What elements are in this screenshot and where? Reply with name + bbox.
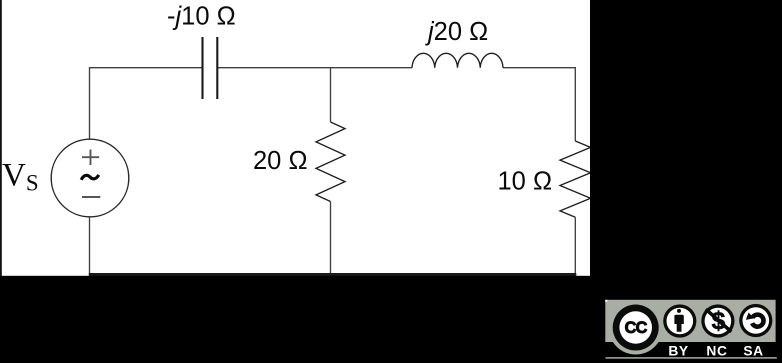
SA icon circle [739,304,772,337]
black region below panel [0,276,782,363]
inductor L (j20) [412,53,503,67]
svg-text:SA: SA [743,343,763,358]
svg-text:j20 Ω: j20 Ω [425,18,488,46]
BY icon circle [663,304,696,337]
wire: inductor to top-right corner down to 10 ohm [503,68,575,141]
wire: source bottom to bottom wire [89,217,91,275]
voltage source tilde [81,175,99,180]
voltage source minus sign [82,196,100,198]
svg-text:BY: BY [668,343,688,358]
CC badge gray halo around CC circle [609,301,663,355]
voltage source plus sign [82,150,99,166]
white circuit panel [0,0,590,276]
voltage source VS circle [51,139,129,217]
CC badge white corner dot [605,300,607,302]
NC slash [706,309,732,332]
CC license badge background [605,300,775,342]
svg-text:20 Ω: 20 Ω [253,147,308,175]
wire: capacitor to middle node [217,67,412,69]
SA arrow icon [752,315,763,327]
capacitor C (-j10) plates [203,37,218,99]
resistor R2 10 ohm zigzag [560,141,591,217]
NC icon circle [701,304,734,337]
svg-text:CC: CC [625,319,648,337]
svg-text:NC: NC [706,343,727,358]
black region right of panel [590,0,782,363]
resistor R1 20 ohm zigzag [316,122,345,202]
svg-text:-j10 Ω: -j10 Ω [167,3,236,31]
wire: 20 ohm resistor to bottom wire [330,202,332,275]
wire: bottom return wire [89,273,577,276]
wire: top-left from source to capacitor [90,68,203,140]
badge bottom light line [606,357,777,358]
svg-text:10 Ω: 10 Ω [498,168,553,196]
panel left border line [0,0,2,276]
wire: middle node down to 20 ohm resistor [330,68,332,122]
BY NC SA labels [668,343,763,358]
wire: 10 ohm resistor to bottom wire [574,217,576,274]
CC logo big circle [613,305,659,351]
BY person icon [677,309,681,313]
